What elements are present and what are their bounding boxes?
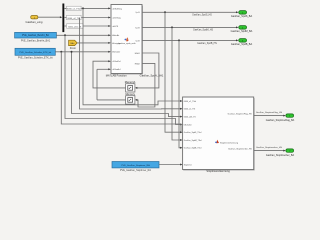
memory block Memory1 [126,84,135,92]
wire U1 out3 to outport3 [142,39,237,41]
wire U1 out2 to outport2 [142,26,237,28]
wire blue2 to U1 p6 [55,51,109,53]
wire U1 out5 to memory2 [136,63,155,107]
svg-text:GasKan_SpdA_BH1: GasKan_SpdA_BH1 [140,74,164,78]
svg-text:Stoptimererkennung: Stoptimererkennung [220,141,238,144]
svg-text:GasKan_StoptimeFlag_HS: GasKan_StoptimeFlag_HS [256,111,283,114]
svg-text:GasKan_eing: GasKan_eing [26,20,43,24]
svg-text:GasKan_SpdB_TSol: GasKan_SpdB_TSol [184,148,202,150]
svg-text:GasKan_SpdM_TSol: GasKan_SpdM_TSol [184,140,202,142]
svg-text:bSchalter: bSchalter [112,51,120,54]
inport GasKan_eing [31,16,38,19]
svg-text:SpdS: SpdS [135,12,140,14]
svg-text:6000_u2_TSt: 6000_u2_TSt [68,17,81,20]
svg-text:GasKan_SpdS_TSol: GasKan_SpdS_TSol [184,132,202,134]
svg-text:6000_u1_TSol: 6000_u1_TSol [67,9,81,11]
outport GasKan_Stoptimerber_BA [286,149,294,152]
svg-text:GasKan_SpdM_HS: GasKan_SpdM_HS [193,30,214,32]
outport GasKan_SpdB_BA [239,39,247,43]
wire memory1 to U1 p7 [93,61,126,88]
constant block PVE_GasKan_BetrArt_BA [15,32,57,38]
svg-text:Stoptimer: Stoptimer [184,163,192,166]
MATLAB function block U1 GasKan_SpdA_BH [112,6,143,74]
svg-text:PVE_GasKan_Stoptimer_RA: PVE_GasKan_Stoptimer_RA [121,164,150,167]
svg-text:GasKan_SpdS_BA: GasKan_SpdS_BA [231,15,253,18]
wire branch bus2 to U2 p2 [80,18,182,110]
wire U2 out1 to outport4 [254,115,285,117]
svg-text:u2iIstVorg: u2iIstVorg [112,16,120,19]
svg-text:HBd2: HBd2 [135,63,141,65]
svg-text:ub3iTS: ub3iTS [112,26,119,28]
wire branch blue2b to U2 p3 [72,52,182,117]
wire branch blue2 to U2 p5 [61,52,181,132]
svg-text:PVE_GasKan_Schalter_ETK_bit: PVE_GasKan_Schalter_ETK_bit [19,51,51,54]
wire blue1 to U1 p4 [56,34,109,36]
wire blue3 to U2 p8 [159,164,181,166]
svg-text:SpdM: SpdM [135,27,140,29]
svg-text:From: From [70,46,77,50]
svg-text:Stoptimererkennung: Stoptimererkennung [206,169,230,173]
svg-text:u5iVorRuf: u5iVorRuf [112,60,121,63]
bus selector bar [62,4,64,33]
wire bus out2 to U1 p2 [64,17,109,19]
svg-text:HBd1: HBd1 [135,53,141,55]
signal label 6000_ub3_TS [67,24,84,28]
wire branch blue1 to U2 p4 [65,35,181,124]
svg-text:bBetrArt: bBetrArt [112,34,119,37]
svg-text:GasKan_StoptimeFlag_BA: GasKan_StoptimeFlag_BA [266,119,295,122]
subsystem block U2 Stoptimererkennung [183,98,254,170]
svg-text:GasKan_SpdM_BA: GasKan_SpdM_BA [231,30,253,33]
signal label 6000_u2_TSt [67,15,82,19]
constant block PVE_GasKan_Schalter_ETK_bit [15,48,55,55]
wire bus out1 to U1 p1 [64,7,109,9]
svg-text:GasKan_StoptimeFlag_HS: GasKan_StoptimeFlag_HS [228,113,253,116]
wire branch bus1 to U2 p1 [83,8,181,104]
memory block Memory [126,96,135,104]
from tag [69,40,78,45]
wire from-tag to U1 p5 [77,42,109,44]
svg-text:GasKan_SpdB_HS: GasKan_SpdB_HS [197,43,217,45]
svg-text:bSchalter: bSchalter [184,123,192,126]
svg-text:GasKan_SpdB_BA: GasKan_SpdB_BA [231,43,253,46]
wire memory2 to U1 p8 [97,99,126,101]
svg-text:SpdB: SpdB [135,40,140,42]
outport GasKan_SpdS_BA [239,11,247,15]
svg-text:GasKan_Stoptimerber_HS: GasKan_Stoptimerber_HS [228,148,252,151]
svg-text:Memory: Memory [126,92,136,96]
svg-text:GasKan_SpdS_HS: GasKan_SpdS_HS [192,15,212,17]
svg-text:6000_u2_TSt: 6000_u2_TSt [184,108,196,111]
svg-text:PVE_GasKan_Schalter_ETK_bit: PVE_GasKan_Schalter_ETK_bit [18,57,53,60]
wire branch U1out3 to U2 p7 [179,40,181,147]
svg-text:PVE_GasKan_BetrArt_BA: PVE_GasKan_BetrArt_BA [22,34,49,37]
wire bus out3 to U1 p3 [64,25,109,27]
svg-text:Memory1: Memory1 [125,80,136,84]
svg-text:PVE_GasKan_Stoptimer_RA: PVE_GasKan_Stoptimer_RA [120,169,151,172]
wire branch U1out1 to U2 p5 [165,12,181,132]
svg-text:6000_ub3_TS: 6000_ub3_TS [184,117,197,119]
svg-text:GasKan_Stoptimerber_HS: GasKan_Stoptimerber_HS [256,146,282,149]
wire U1 out4 to memory1 [136,53,159,88]
outport GasKan_StoptimeFlag_BA [286,114,294,117]
signal label 6000_u1_TSol [67,6,82,10]
svg-text:PVE_GasKan_BetrArt_BA1: PVE_GasKan_BetrArt_BA1 [21,40,51,43]
constant block PVE_GasKan_Stoptimer_RA [112,162,159,168]
svg-text:gaskan_spda_outb: gaskan_spda_outb [119,42,137,45]
svg-text:BArt: BArt [71,42,75,45]
wire U2 out2 to outport5 [254,150,285,152]
wire U1 out1 to outport1 [142,11,237,13]
svg-text:u6iVorAuf: u6iVorAuf [112,68,121,71]
svg-text:6000_u1_TSol: 6000_u1_TSol [184,101,197,103]
svg-text:GasKan_Stoptimerber_BA: GasKan_Stoptimerber_BA [266,154,295,157]
svg-text:u1fSollVorg: u1fSollVorg [112,7,122,10]
wire inport to bus selector [38,16,61,18]
svg-text:MATLAB Function: MATLAB Function [106,74,127,78]
outport GasKan_SpdM_BA [239,26,247,30]
wire branch U1out2 to U2 p6 [172,27,181,140]
